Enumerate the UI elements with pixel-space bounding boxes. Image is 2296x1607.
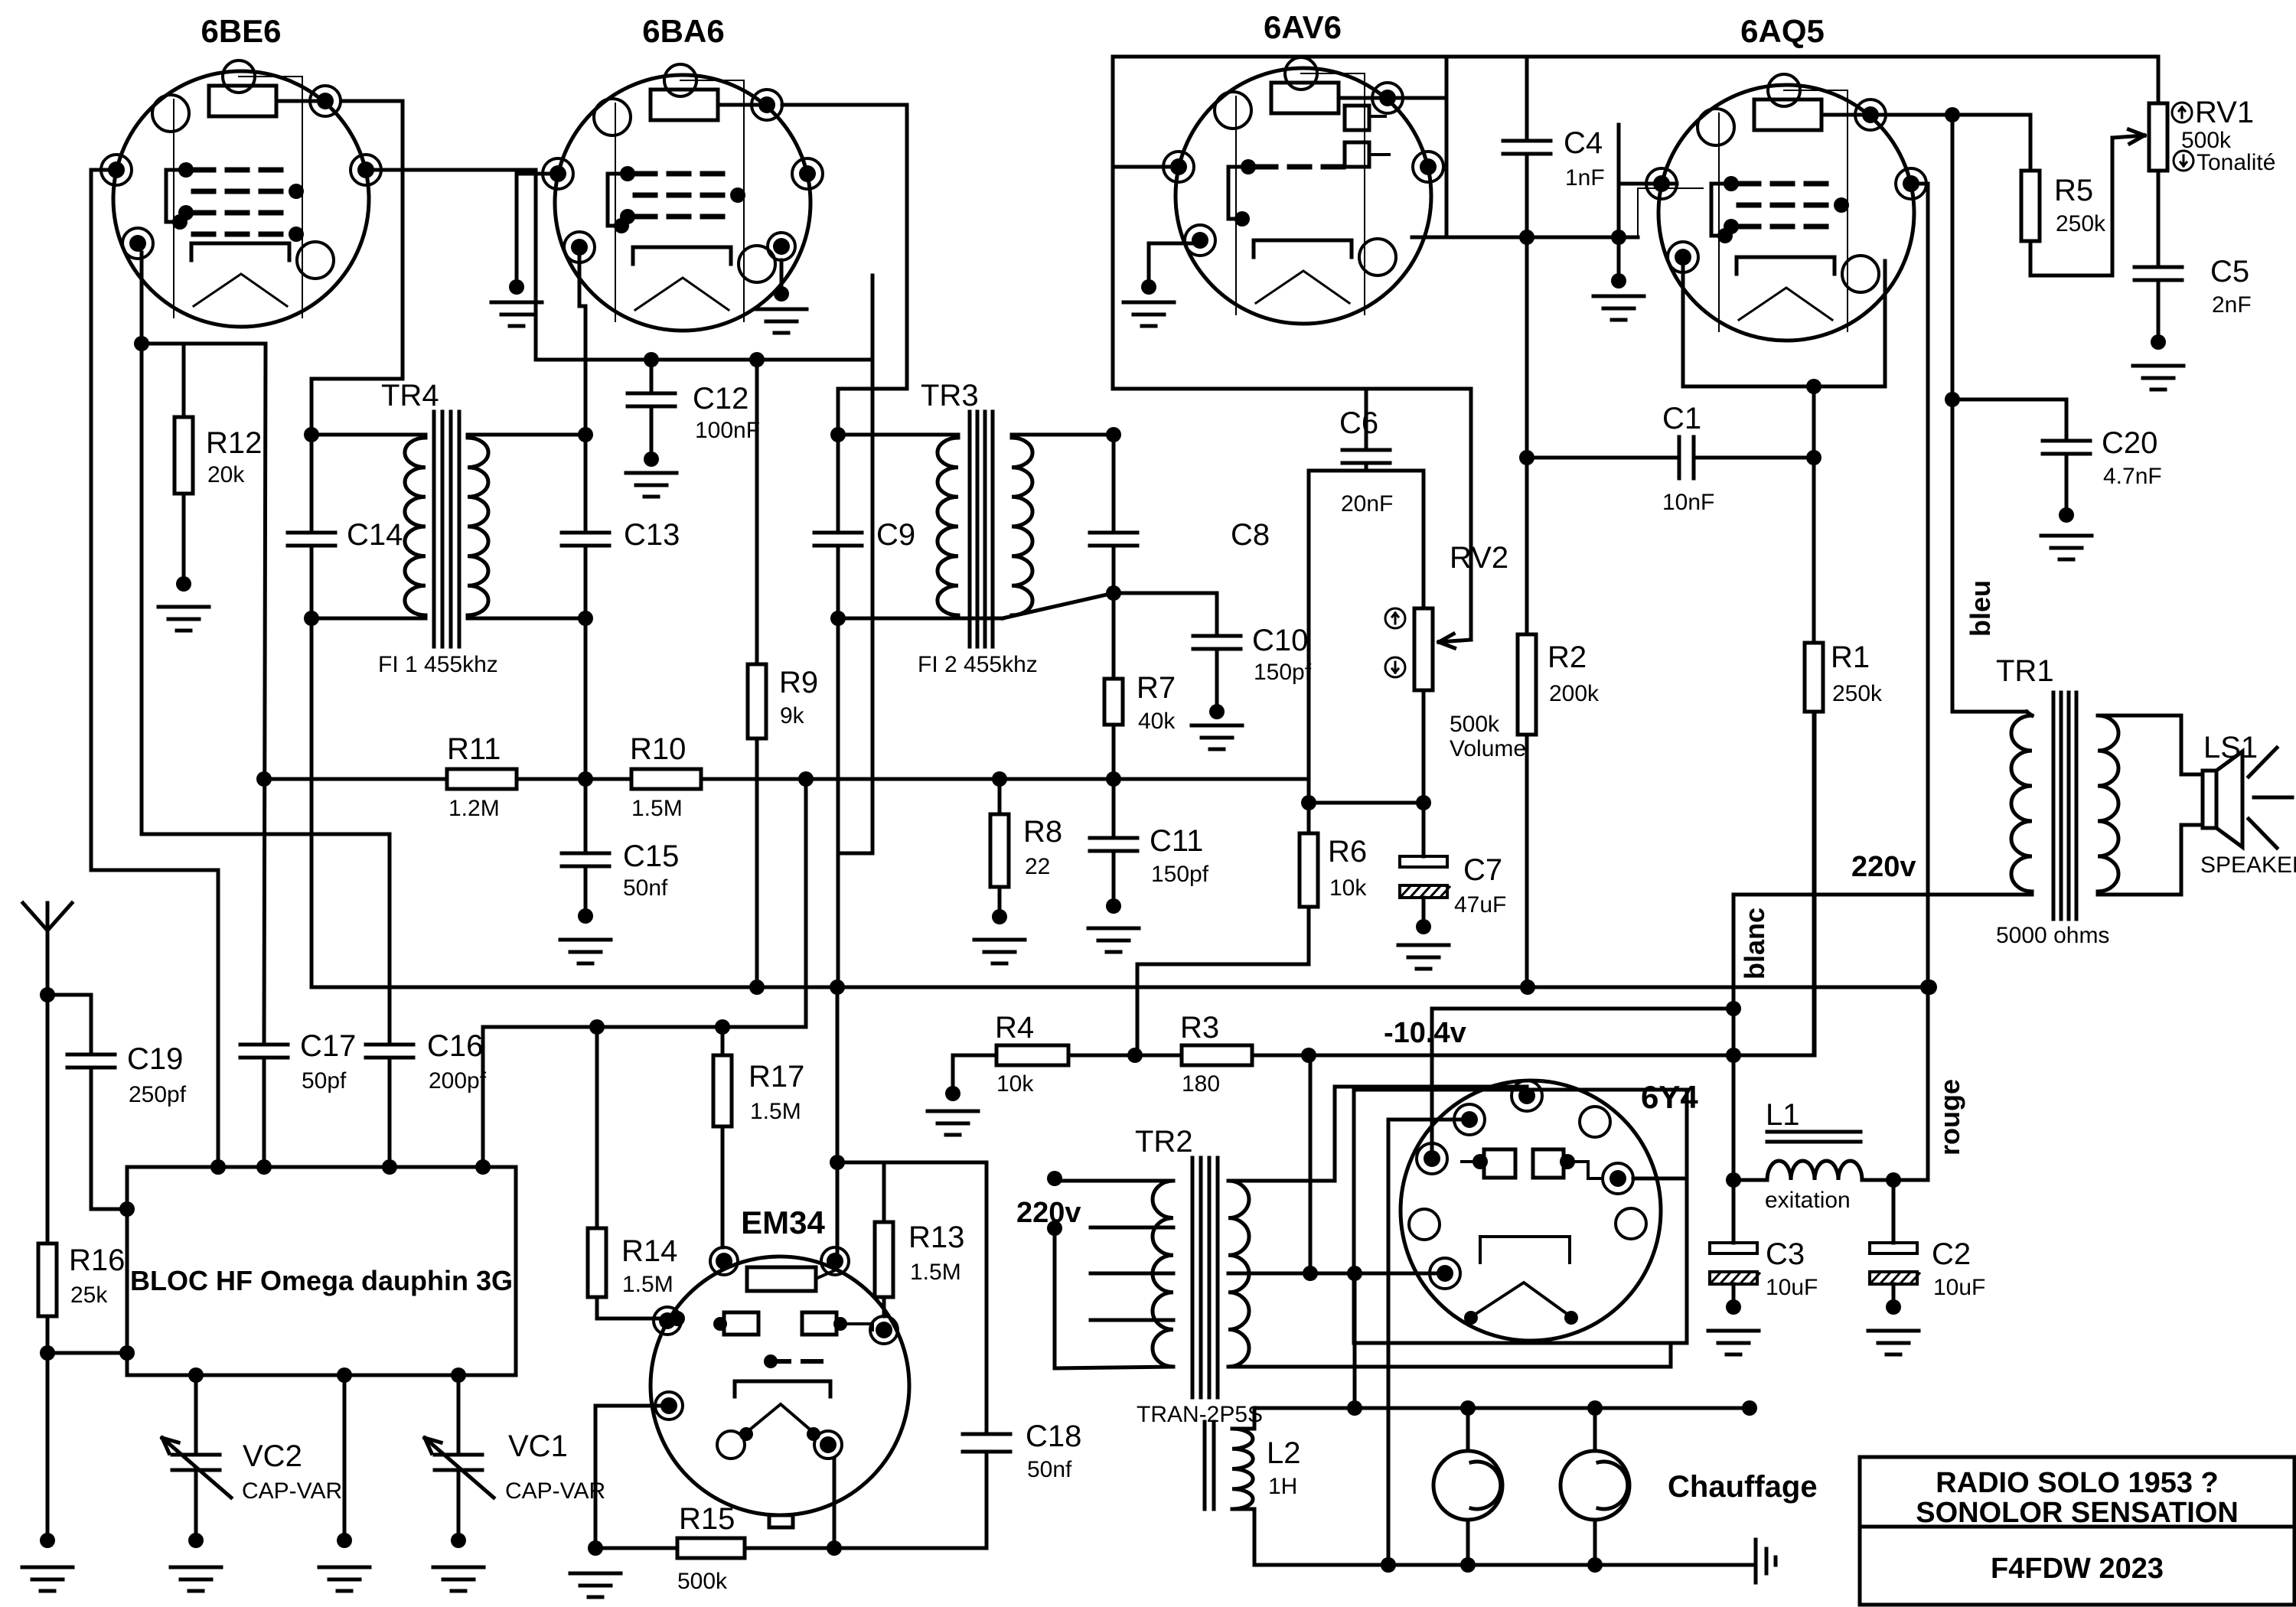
svg-text:20nF: 20nF: [1341, 491, 1393, 517]
svg-text:blanc: blanc: [1739, 908, 1770, 980]
svg-text:2nF: 2nF: [2212, 292, 2252, 318]
svg-text:6BA6: 6BA6: [642, 13, 724, 49]
svg-text:R1: R1: [1831, 641, 1870, 674]
svg-text:R5: R5: [2054, 174, 2093, 207]
svg-text:TR4: TR4: [381, 379, 439, 412]
svg-text:rouge: rouge: [1934, 1079, 1965, 1156]
svg-text:SPEAKER: SPEAKER: [2200, 852, 2296, 878]
svg-text:50nf: 50nf: [1027, 1457, 1072, 1482]
svg-text:10k: 10k: [996, 1071, 1034, 1097]
svg-text:R2: R2: [1548, 641, 1587, 674]
svg-text:R6: R6: [1328, 835, 1367, 869]
svg-text:C1: C1: [1662, 402, 1701, 435]
svg-text:22: 22: [1025, 854, 1050, 879]
svg-text:25k: 25k: [70, 1283, 108, 1308]
svg-text:150pf: 150pf: [1254, 660, 1312, 685]
svg-text:R13: R13: [908, 1221, 964, 1254]
svg-text:50nf: 50nf: [623, 875, 668, 901]
svg-text:TR2: TR2: [1135, 1125, 1193, 1159]
svg-text:exitation: exitation: [1765, 1188, 1851, 1213]
svg-text:6Y4: 6Y4: [1641, 1079, 1698, 1115]
svg-text:47uF: 47uF: [1454, 892, 1506, 918]
svg-text:150pf: 150pf: [1151, 862, 1209, 887]
svg-text:1.5M: 1.5M: [750, 1099, 801, 1124]
svg-text:VC1: VC1: [508, 1429, 568, 1463]
svg-text:C13: C13: [624, 518, 680, 552]
svg-text:C3: C3: [1766, 1237, 1805, 1271]
svg-text:250pf: 250pf: [129, 1082, 187, 1107]
svg-text:4.7nF: 4.7nF: [2103, 464, 2162, 489]
svg-text:C7: C7: [1463, 853, 1502, 887]
svg-text:-10.4v: -10.4v: [1384, 1017, 1466, 1049]
svg-text:C2: C2: [1932, 1237, 1971, 1271]
svg-text:R17: R17: [748, 1060, 804, 1094]
svg-text:FI 2 455khz: FI 2 455khz: [918, 652, 1038, 677]
svg-text:C6: C6: [1339, 406, 1378, 440]
svg-text:200pf: 200pf: [429, 1068, 487, 1094]
svg-text:C15: C15: [623, 839, 679, 873]
svg-text:RV2: RV2: [1450, 541, 1508, 575]
svg-text:R3: R3: [1180, 1011, 1219, 1045]
svg-text:40k: 40k: [1138, 709, 1176, 734]
svg-text:TR3: TR3: [921, 379, 979, 412]
svg-text:R7: R7: [1137, 671, 1176, 705]
svg-text:R14: R14: [621, 1234, 677, 1268]
svg-text:5000 ohms: 5000 ohms: [1996, 923, 2109, 948]
svg-text:VC2: VC2: [243, 1439, 302, 1473]
svg-text:220v: 220v: [1851, 851, 1916, 883]
svg-text:R11: R11: [447, 732, 501, 766]
svg-text:RV1: RV1: [2195, 96, 2254, 129]
svg-text:TRAN-2P5S: TRAN-2P5S: [1137, 1402, 1263, 1427]
svg-text:C10: C10: [1252, 624, 1308, 657]
svg-text:SONOLOR SENSATION: SONOLOR SENSATION: [1916, 1497, 2239, 1529]
svg-text:C4: C4: [1564, 126, 1603, 160]
svg-text:C19: C19: [127, 1042, 183, 1076]
svg-text:C12: C12: [693, 382, 748, 416]
svg-text:L2: L2: [1267, 1436, 1301, 1470]
svg-text:R9: R9: [779, 666, 818, 699]
svg-text:C17: C17: [300, 1029, 356, 1063]
svg-text:6BE6: 6BE6: [201, 13, 281, 49]
svg-text:180: 180: [1182, 1071, 1220, 1097]
svg-text:R4: R4: [995, 1011, 1034, 1045]
svg-text:C5: C5: [2210, 255, 2249, 288]
svg-text:CAP-VAR: CAP-VAR: [505, 1478, 605, 1504]
svg-text:Tonalité: Tonalité: [2197, 150, 2275, 175]
svg-text:1H: 1H: [1268, 1474, 1297, 1499]
svg-text:10nF: 10nF: [1662, 490, 1714, 515]
svg-text:1nF: 1nF: [1565, 165, 1605, 191]
svg-text:9k: 9k: [780, 703, 805, 729]
svg-text:Volume: Volume: [1450, 736, 1526, 761]
svg-text:250k: 250k: [2056, 211, 2106, 236]
svg-text:10uF: 10uF: [1766, 1275, 1818, 1300]
svg-text:R10: R10: [630, 732, 686, 766]
svg-text:R12: R12: [206, 426, 262, 460]
svg-text:250k: 250k: [1832, 681, 1883, 706]
svg-text:L1: L1: [1766, 1098, 1800, 1132]
svg-text:R16: R16: [69, 1244, 125, 1277]
svg-text:TR1: TR1: [1996, 654, 2054, 688]
svg-text:C8: C8: [1231, 518, 1270, 552]
svg-text:BLOC HF Omega dauphin 3G: BLOC HF Omega dauphin 3G: [130, 1265, 513, 1296]
svg-text:CAP-VAR: CAP-VAR: [242, 1478, 342, 1504]
svg-text:R8: R8: [1023, 815, 1062, 849]
svg-text:6AQ5: 6AQ5: [1740, 13, 1825, 49]
svg-text:6AV6: 6AV6: [1264, 9, 1342, 45]
svg-text:C14: C14: [347, 518, 403, 552]
svg-text:C16: C16: [427, 1029, 483, 1063]
svg-text:100nF: 100nF: [695, 418, 760, 443]
svg-text:RADIO SOLO 1953 ?: RADIO SOLO 1953 ?: [1936, 1467, 2219, 1499]
svg-text:EM34: EM34: [741, 1204, 825, 1240]
svg-text:C11: C11: [1150, 824, 1203, 858]
svg-text:500k: 500k: [677, 1569, 728, 1594]
svg-text:FI 1 455khz: FI 1 455khz: [378, 652, 498, 677]
svg-text:bleu: bleu: [1965, 580, 1996, 637]
svg-text:1.5M: 1.5M: [631, 796, 683, 821]
svg-text:1.2M: 1.2M: [448, 796, 500, 821]
svg-text:C18: C18: [1026, 1420, 1081, 1453]
svg-text:1.5M: 1.5M: [910, 1260, 961, 1285]
svg-text:10uF: 10uF: [1933, 1275, 1985, 1300]
svg-text:R15: R15: [679, 1502, 735, 1536]
svg-text:Chauffage: Chauffage: [1668, 1470, 1818, 1504]
svg-text:C9: C9: [876, 518, 915, 552]
svg-text:50pf: 50pf: [302, 1068, 347, 1094]
svg-text:1.5M: 1.5M: [622, 1272, 673, 1297]
svg-text:LS1: LS1: [2203, 731, 2258, 764]
svg-text:C20: C20: [2102, 426, 2157, 460]
svg-text:500k: 500k: [1450, 712, 1500, 737]
svg-text:10k: 10k: [1329, 875, 1367, 901]
svg-text:20k: 20k: [207, 462, 245, 487]
svg-text:200k: 200k: [1549, 681, 1600, 706]
svg-text:F4FDW 2023: F4FDW 2023: [1991, 1553, 2164, 1585]
